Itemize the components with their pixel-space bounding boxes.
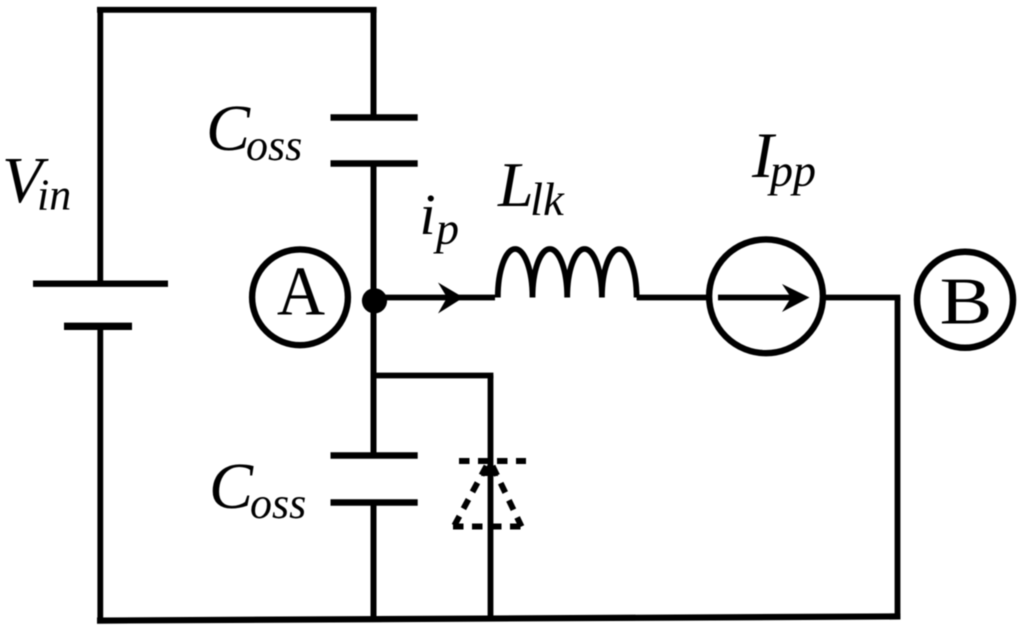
wire main rail from dot to inductor (375, 295, 496, 301)
svg-text:L: L (497, 149, 534, 220)
label Ipp (751, 120, 816, 196)
capacitor Coss top, upper plate (331, 114, 418, 120)
wire top horizontal (97, 7, 377, 13)
diode D1 dashed left side (454, 466, 487, 527)
inductor Llk (498, 249, 637, 298)
battery Vin short plate (64, 323, 132, 330)
svg-text:C: C (209, 450, 254, 523)
wire current source to right corner (823, 295, 901, 301)
wire diode branch vertical (488, 376, 494, 620)
label Coss top (206, 92, 302, 170)
svg-text:oss: oss (246, 121, 302, 170)
label ip (420, 182, 460, 254)
wire right vertical (895, 298, 901, 620)
current source arrow shaft (718, 295, 791, 301)
wire from dot down to bottom capacitor (371, 300, 377, 456)
capacitor Coss bottom, lower plate (331, 499, 418, 505)
wire left vertical upper (97, 7, 103, 284)
svg-text:i: i (420, 182, 436, 247)
svg-text:B: B (940, 264, 993, 338)
label Coss bottom (209, 450, 306, 528)
label Vin (2, 144, 71, 220)
diode D1 solid arrowhead up (481, 462, 498, 477)
wire branch horizontal to diode (371, 373, 494, 379)
node A (252, 249, 348, 345)
svg-text:A: A (277, 252, 325, 330)
svg-text:p: p (433, 203, 459, 254)
svg-text:in: in (37, 171, 71, 220)
svg-text:oss: oss (250, 479, 306, 528)
current source arrowhead (782, 284, 810, 312)
wire bottom capacitor to bottom rail (371, 503, 377, 622)
diode D1 dashed right side (493, 466, 522, 527)
current source Ipp circle (709, 239, 823, 353)
wire inductor to current source (637, 295, 707, 301)
junction dot (362, 288, 387, 313)
label Llk (497, 149, 565, 226)
diode D1 dashed base (453, 524, 522, 530)
wire from top capacitor to node dot (371, 164, 377, 302)
wire left vertical lower (97, 326, 103, 621)
svg-text:lk: lk (530, 174, 565, 226)
current arrow ip (438, 283, 464, 314)
svg-text:pp: pp (767, 145, 816, 196)
diode D1 dashed cathode bar (459, 458, 526, 464)
wire bottom horizontal (97, 616, 900, 620)
battery Vin long plate (33, 281, 168, 287)
wire top capacitor feed (371, 7, 377, 118)
node B (917, 252, 1013, 348)
capacitor Coss top, lower plate (331, 160, 418, 166)
capacitor Coss bottom, upper plate (331, 452, 418, 458)
svg-text:C: C (206, 92, 251, 165)
